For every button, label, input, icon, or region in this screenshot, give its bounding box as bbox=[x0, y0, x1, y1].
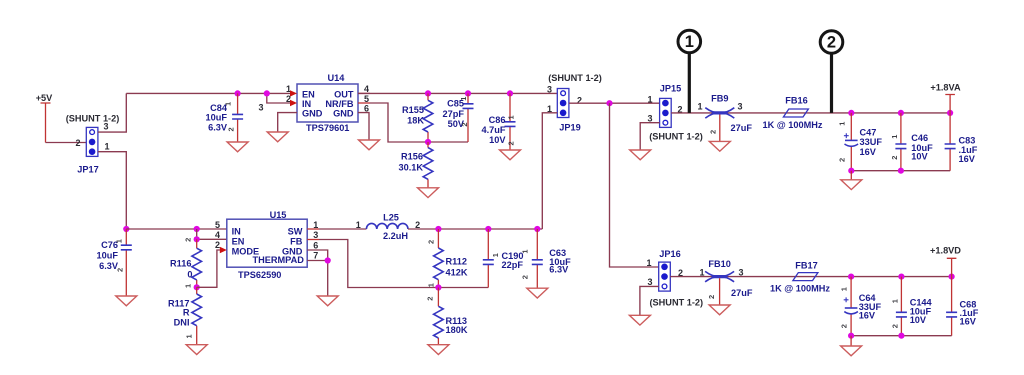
ferrite bead FB17 bbox=[770, 260, 830, 293]
capacitor C83 bbox=[945, 113, 978, 171]
svg-text:JP17: JP17 bbox=[77, 165, 98, 175]
svg-text:JP15: JP15 bbox=[660, 83, 681, 93]
regulator U15 box bbox=[227, 210, 307, 280]
svg-text:1: 1 bbox=[184, 284, 193, 288]
svg-text:2: 2 bbox=[415, 220, 420, 230]
capacitor C47 polarized bbox=[838, 113, 883, 171]
connector JP15 bbox=[660, 98, 672, 127]
node C144 top bbox=[898, 274, 904, 280]
ground under R113 bbox=[428, 345, 449, 355]
svg-text:1: 1 bbox=[699, 267, 704, 277]
svg-text:2: 2 bbox=[507, 141, 516, 145]
ground JP15 pin3 bbox=[630, 150, 651, 160]
svg-text:16V: 16V bbox=[959, 154, 976, 164]
resistor R156 bbox=[398, 142, 432, 188]
capacitor C64 polarized bbox=[840, 277, 882, 336]
node R112 top bbox=[435, 226, 441, 232]
svg-text:6.3V: 6.3V bbox=[208, 122, 228, 132]
svg-text:1: 1 bbox=[646, 258, 651, 268]
svg-text:6: 6 bbox=[313, 240, 318, 250]
node C64 top bbox=[848, 274, 854, 280]
pin 7 U15 bbox=[307, 251, 328, 261]
svg-text:3: 3 bbox=[647, 277, 652, 287]
svg-text:FB10: FB10 bbox=[708, 259, 730, 269]
wire ground stub D rail bbox=[850, 336, 852, 346]
svg-text:FB9: FB9 bbox=[711, 94, 728, 104]
svg-text:1: 1 bbox=[647, 94, 652, 104]
wire +5V to JP17 pin2 bbox=[46, 142, 87, 144]
wire U14 OUT to JP19 bbox=[358, 92, 557, 94]
ground under C63 bbox=[527, 288, 548, 298]
svg-text:R116: R116 bbox=[170, 258, 191, 268]
svg-text:GND: GND bbox=[282, 247, 303, 257]
svg-text:JP19: JP19 bbox=[559, 122, 580, 132]
node C190 top bbox=[485, 226, 491, 232]
svg-text:2: 2 bbox=[116, 268, 125, 272]
wire MODE pin path bbox=[197, 250, 220, 287]
node R155/R156 junction bbox=[425, 139, 431, 145]
ground under FB9 bbox=[709, 141, 730, 151]
wire top rail to U14 bbox=[126, 92, 290, 94]
callout leader line 2 bbox=[830, 54, 833, 113]
svg-text:5: 5 bbox=[215, 220, 220, 230]
svg-text:10uF: 10uF bbox=[206, 113, 228, 123]
node C68 top bbox=[949, 274, 955, 280]
svg-text:R112: R112 bbox=[446, 256, 467, 266]
callout leader line 1 bbox=[688, 54, 691, 113]
svg-text:2: 2 bbox=[75, 138, 80, 148]
ground under C76 bbox=[116, 296, 137, 306]
pin 1 U15 bbox=[307, 220, 319, 230]
svg-text:2: 2 bbox=[890, 156, 899, 160]
svg-text:1: 1 bbox=[507, 115, 516, 119]
svg-text:L25: L25 bbox=[383, 213, 399, 223]
wire rail to EN pin bbox=[197, 229, 227, 239]
svg-text:16V: 16V bbox=[960, 316, 977, 326]
svg-text:1: 1 bbox=[185, 334, 194, 338]
svg-text:3: 3 bbox=[547, 84, 552, 94]
wire branch to U14 pin2 bbox=[267, 93, 291, 103]
ferrite bead FB16 bbox=[762, 95, 822, 130]
svg-text:EN: EN bbox=[302, 89, 315, 99]
svg-text:1: 1 bbox=[459, 97, 468, 101]
wire JP19 pin2 to JP15 pin1 bbox=[569, 102, 660, 104]
svg-text:6: 6 bbox=[364, 103, 369, 113]
svg-text:3: 3 bbox=[738, 267, 743, 277]
svg-text:22pF: 22pF bbox=[502, 260, 524, 270]
svg-text:2: 2 bbox=[577, 95, 582, 105]
svg-text:16V: 16V bbox=[860, 147, 877, 157]
ground under R117 bbox=[186, 345, 207, 355]
ground U15 gnd bbox=[317, 296, 338, 306]
svg-text:1: 1 bbox=[104, 142, 109, 152]
node C83 top bbox=[947, 110, 953, 116]
node R116 top rail bbox=[194, 226, 200, 232]
wire SW to L25 bbox=[319, 228, 366, 230]
svg-text:1: 1 bbox=[890, 135, 899, 139]
svg-text:4.7uF: 4.7uF bbox=[482, 125, 506, 135]
svg-text:3: 3 bbox=[258, 103, 263, 113]
svg-text:2: 2 bbox=[827, 34, 836, 52]
svg-text:+5V: +5V bbox=[36, 93, 53, 103]
svg-text:JP16: JP16 bbox=[659, 249, 680, 259]
capacitor C190 bbox=[483, 229, 524, 288]
svg-text:412K: 412K bbox=[446, 267, 468, 277]
svg-text:1: 1 bbox=[840, 287, 849, 291]
node R112 bottom bbox=[435, 284, 441, 290]
wire JP17 pin3 to top rail bbox=[98, 93, 126, 132]
wire JP15 pin3 to ground bbox=[640, 123, 659, 150]
svg-text:GND: GND bbox=[333, 108, 354, 118]
ground U14 pin6 bbox=[359, 140, 380, 150]
node C63 top bbox=[534, 226, 540, 232]
svg-text:R155: R155 bbox=[402, 105, 424, 115]
svg-text:2: 2 bbox=[708, 130, 717, 134]
svg-text:(SHUNT 1-2): (SHUNT 1-2) bbox=[649, 131, 703, 141]
connector JP17 bbox=[86, 127, 98, 156]
svg-text:2: 2 bbox=[838, 158, 847, 162]
svg-text:10V: 10V bbox=[911, 151, 928, 161]
svg-text:FB: FB bbox=[290, 237, 303, 247]
wire FB10 to ground bbox=[719, 278, 721, 305]
svg-text:27pF: 27pF bbox=[443, 109, 465, 119]
svg-text:DNI: DNI bbox=[174, 317, 190, 327]
svg-text:4: 4 bbox=[364, 84, 369, 94]
svg-text:27uF: 27uF bbox=[731, 288, 753, 298]
svg-text:+1.8VD: +1.8VD bbox=[930, 246, 961, 256]
svg-text:GND: GND bbox=[302, 108, 323, 118]
svg-text:2: 2 bbox=[890, 324, 899, 328]
svg-text:U15: U15 bbox=[270, 210, 287, 220]
svg-text:7: 7 bbox=[313, 251, 318, 261]
svg-text:U14: U14 bbox=[328, 73, 346, 83]
resistor R113 bbox=[426, 288, 468, 345]
ground U14 pin3 bbox=[267, 132, 288, 142]
svg-text:10V: 10V bbox=[489, 135, 506, 145]
filter FB9 bbox=[697, 94, 752, 134]
svg-text:2: 2 bbox=[840, 324, 849, 328]
svg-text:FB17: FB17 bbox=[795, 260, 817, 270]
node C47 bottom bbox=[848, 168, 854, 174]
svg-text:C46: C46 bbox=[911, 133, 928, 143]
svg-text:3: 3 bbox=[737, 102, 742, 112]
svg-text:(SHUNT 1-2): (SHUNT 1-2) bbox=[66, 113, 120, 123]
op-amp U14 box bbox=[297, 73, 358, 133]
svg-text:2: 2 bbox=[520, 275, 529, 279]
svg-text:0: 0 bbox=[187, 269, 192, 279]
svg-text:C86: C86 bbox=[489, 115, 506, 125]
ground under C84 bbox=[227, 142, 248, 152]
pin 6 U14 bbox=[358, 103, 369, 139]
node buck input junction C76 bbox=[123, 226, 129, 232]
wire FB9 to ground bbox=[719, 115, 721, 142]
node R155 top bbox=[425, 90, 431, 96]
ground under C86 bbox=[500, 150, 521, 160]
capacitor C68 bbox=[946, 277, 979, 336]
node C46 bottom bbox=[898, 168, 904, 174]
svg-text:1: 1 bbox=[697, 102, 702, 112]
svg-text:3: 3 bbox=[103, 121, 108, 131]
svg-text:IN: IN bbox=[232, 226, 242, 236]
svg-text:R156: R156 bbox=[401, 152, 423, 162]
node C86 top bbox=[507, 90, 513, 96]
resistor R116 bbox=[170, 238, 201, 288]
svg-text:2: 2 bbox=[427, 240, 436, 244]
node C46 top bbox=[898, 110, 904, 116]
capacitor C86 bbox=[482, 93, 516, 149]
pin 5 U14 bbox=[358, 94, 370, 104]
svg-text:1: 1 bbox=[838, 122, 847, 126]
ground under FB10 bbox=[709, 305, 730, 315]
svg-text:1: 1 bbox=[224, 102, 233, 106]
svg-text:33UF: 33UF bbox=[860, 137, 883, 147]
svg-text:2: 2 bbox=[426, 297, 435, 301]
svg-text:10uF: 10uF bbox=[97, 251, 119, 261]
svg-text:1K @ 100MHz: 1K @ 100MHz bbox=[770, 284, 830, 294]
capacitor C85 bbox=[443, 93, 474, 142]
node C144 bottom bbox=[898, 333, 904, 339]
wire JP16 pin3 to ground bbox=[640, 286, 659, 315]
svg-text:5: 5 bbox=[364, 94, 369, 104]
svg-text:10V: 10V bbox=[910, 315, 927, 325]
callout circle 2 bbox=[820, 31, 843, 54]
node pin6 pin7 junction bbox=[325, 257, 331, 263]
capacitor C144 bbox=[890, 277, 932, 336]
svg-text:(SHUNT 1-2): (SHUNT 1-2) bbox=[649, 297, 703, 307]
capacitor C76 bbox=[97, 229, 132, 296]
wire FB node bbox=[319, 240, 488, 288]
filter FB10 bbox=[699, 259, 752, 299]
node R116 top EN bbox=[194, 236, 200, 242]
ground A rail bbox=[841, 180, 862, 190]
resistor R155 bbox=[402, 93, 433, 142]
svg-text:1: 1 bbox=[356, 220, 361, 230]
node R116 bottom junction bbox=[194, 284, 200, 290]
node junction U14 pin2 branch bbox=[264, 90, 270, 96]
capacitor C63 bbox=[520, 229, 571, 288]
pin 2 U14 bbox=[286, 94, 297, 106]
callout circle 1 bbox=[678, 30, 701, 53]
pin 2 U15 bbox=[215, 240, 227, 253]
power flag +1.8VA bbox=[930, 82, 961, 113]
svg-text:1: 1 bbox=[491, 253, 500, 257]
svg-text:180K: 180K bbox=[446, 325, 468, 335]
pin 1 U14 bbox=[286, 84, 297, 96]
svg-text:(SHUNT 1-2): (SHUNT 1-2) bbox=[548, 73, 602, 83]
wire junction down to JP16 pin1 bbox=[610, 103, 659, 267]
svg-text:FB16: FB16 bbox=[785, 95, 807, 105]
svg-text:TPS79601: TPS79601 bbox=[306, 123, 349, 133]
wire D rail bottom bbox=[851, 335, 952, 337]
wire JP19 pin1 down to buck output bbox=[542, 113, 557, 229]
svg-text:C47: C47 bbox=[860, 127, 877, 137]
ground D rail bbox=[841, 346, 862, 356]
ground under R156 bbox=[418, 188, 439, 198]
svg-text:3: 3 bbox=[313, 230, 318, 240]
power flag +5V bbox=[36, 93, 53, 143]
capacitor C46 bbox=[890, 113, 933, 171]
node C64 bottom bbox=[848, 333, 854, 339]
svg-text:1: 1 bbox=[114, 239, 123, 243]
svg-text:16V: 16V bbox=[859, 310, 876, 320]
svg-text:6.3V: 6.3V bbox=[549, 265, 569, 275]
pin 3 U14 bbox=[258, 103, 297, 132]
wire A rail bottom bbox=[851, 170, 950, 172]
svg-text:2: 2 bbox=[184, 238, 193, 242]
svg-text:2: 2 bbox=[215, 240, 220, 250]
svg-text:27uF: 27uF bbox=[731, 123, 753, 133]
svg-text:TPS62590: TPS62590 bbox=[238, 270, 281, 280]
resistor R117 bbox=[168, 287, 201, 344]
svg-text:EN: EN bbox=[232, 237, 245, 247]
svg-text:2: 2 bbox=[227, 127, 236, 131]
ground JP16 pin3 bbox=[629, 315, 650, 325]
wire JP15 pin2 output A rail bbox=[671, 112, 950, 114]
svg-text:2: 2 bbox=[460, 122, 469, 126]
svg-text:1: 1 bbox=[520, 249, 529, 253]
node C85 top bbox=[465, 90, 471, 96]
svg-text:2.2uH: 2.2uH bbox=[383, 231, 408, 241]
capacitor C84 bbox=[206, 93, 244, 141]
resistor R112 bbox=[427, 229, 468, 288]
svg-text:30.1K: 30.1K bbox=[398, 163, 423, 173]
svg-text:1K @ 100MHz: 1K @ 100MHz bbox=[762, 120, 822, 130]
node junction C84 bbox=[235, 90, 241, 96]
connector JP19 bbox=[557, 89, 569, 118]
wire JP17 pin1 down to buck rail bbox=[98, 152, 126, 229]
wire JP16 pin2 output D rail bbox=[670, 276, 951, 278]
svg-text:+1.8VA: +1.8VA bbox=[930, 82, 961, 92]
connector JP16 bbox=[659, 262, 671, 291]
pin 3 U15 bbox=[307, 230, 319, 240]
power flag +1.8VD bbox=[930, 246, 961, 277]
wire buck input rail bbox=[126, 228, 227, 230]
svg-text:18K: 18K bbox=[407, 116, 424, 126]
svg-text:2: 2 bbox=[707, 295, 716, 299]
svg-text:4: 4 bbox=[215, 230, 220, 240]
svg-text:1: 1 bbox=[427, 283, 436, 287]
svg-text:SW: SW bbox=[288, 226, 303, 236]
svg-text:OUT: OUT bbox=[334, 89, 354, 99]
svg-text:1: 1 bbox=[890, 299, 899, 303]
svg-text:R: R bbox=[183, 308, 190, 318]
node junction distribution bbox=[606, 100, 612, 106]
wire U14 NR/FB down bbox=[370, 103, 468, 142]
svg-text:1: 1 bbox=[685, 33, 694, 51]
node C47 top bbox=[848, 110, 854, 116]
wire ground stub A rail bbox=[850, 171, 852, 180]
pin 6 U15 bbox=[307, 240, 328, 295]
inductor L25 bbox=[356, 213, 420, 242]
wire L25 to corner bbox=[408, 228, 542, 230]
pin 4 U14 bbox=[358, 84, 370, 94]
